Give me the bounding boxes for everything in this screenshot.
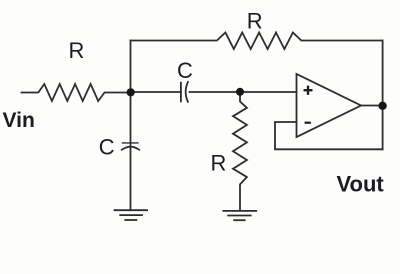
svg-text:R: R [69, 38, 85, 63]
svg-text:R: R [247, 9, 263, 34]
svg-text:Vout: Vout [337, 172, 385, 197]
svg-text:C: C [99, 135, 115, 160]
svg-text:Vin: Vin [3, 109, 35, 132]
svg-text:R: R [211, 151, 227, 176]
svg-text:C: C [177, 58, 193, 83]
